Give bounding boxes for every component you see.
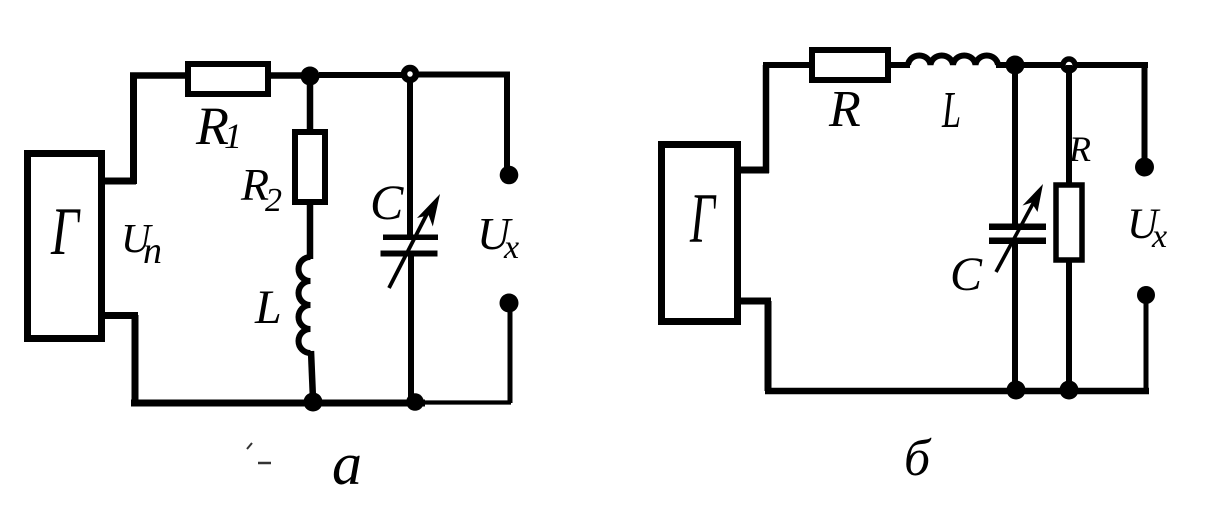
wire: R to L (b) [888, 62, 910, 68]
wire: left vertical top (b) [763, 65, 770, 173]
wire: generator top stub (b) [738, 167, 769, 174]
wire: left vertical bottom (b) [765, 301, 772, 391]
wire: L to node (b) [996, 62, 1007, 68]
wire: node to R2 [307, 76, 314, 133]
node: junction at capacitor branch (b) [1006, 56, 1025, 75]
wire: capacitor branch lower [408, 256, 414, 399]
terminal: upper output dot (b) [1135, 158, 1154, 177]
wire: bottom main (circuit a) [131, 400, 425, 407]
svg-text:R: R [1068, 129, 1091, 169]
wire: top segment node to capacitor [319, 72, 402, 78]
node: ring junction at R branch (b) [1063, 59, 1075, 71]
resistor R (series, b) [812, 50, 888, 80]
resistor R (shunt, b) [1056, 185, 1082, 260]
svg-text:x: x [503, 229, 519, 266]
node: ring junction at capacitor top [404, 68, 416, 80]
wire: R branch lower (b) [1066, 260, 1072, 392]
svg-text:R: R [828, 81, 861, 138]
resistor R2 [295, 132, 325, 202]
wire: lower terminal to bottom wire [508, 303, 513, 403]
svg-text:а: а [332, 431, 362, 497]
dirt speck 2 [258, 462, 271, 465]
wire: bottom main (b) [765, 388, 1149, 395]
wire: right vertical to upper terminal [504, 72, 510, 170]
wire: top left segment [130, 72, 189, 79]
wire: capacitor branch upper (b) [1012, 65, 1018, 226]
node: bottom junction of L branch [304, 393, 323, 412]
inductor L (circuit a) [299, 257, 311, 353]
variable arrow of C (circuit b) [996, 198, 1036, 272]
terminal: upper output dot [500, 166, 519, 185]
svg-text:L: L [941, 82, 961, 139]
svg-text:Г: Г [689, 180, 716, 258]
generator G1 box [28, 154, 102, 339]
wire: node to ring node (b) [1024, 62, 1061, 68]
node: junction after R1 [301, 67, 320, 86]
wire: left vertical top [130, 75, 137, 184]
wire: R branch upper (b) [1066, 65, 1072, 185]
wire: R2 to L [307, 202, 314, 259]
svg-text:2: 2 [265, 182, 282, 219]
wire: left vertical bottom [132, 315, 139, 404]
svg-text:C: C [950, 248, 983, 301]
svg-text:x: x [1151, 218, 1167, 255]
wire: right vertical to upper terminal (b) [1142, 62, 1148, 162]
generator G2 box [662, 145, 738, 322]
wire: L to bottom node [311, 351, 313, 399]
wire: generator top stub [101, 178, 136, 185]
dirt speck 1 [247, 443, 252, 449]
capacitor C plates (circuit b) [989, 224, 1046, 231]
node: bottom junction of R branch (b) [1060, 381, 1079, 400]
wire: top left segment (b) [763, 62, 813, 68]
wire: top segment capacitor to right corner [418, 72, 510, 78]
terminal: lower output dot [500, 294, 519, 313]
node: bottom junction of capacitor branch [406, 393, 424, 411]
svg-text:L: L [254, 281, 282, 334]
resistor R1 [188, 64, 268, 94]
svg-text:Г: Г [50, 193, 80, 269]
variable arrow of C (circuit a) [389, 208, 430, 288]
wire: lower terminal to bottom (b) [1144, 295, 1149, 392]
svg-text:п: п [143, 230, 162, 272]
svg-text:C: C [370, 174, 404, 230]
wire: generator bottom stub [101, 312, 138, 319]
wire: ring node to right corner (b) [1077, 62, 1148, 68]
wire: R1 to node [268, 72, 305, 79]
terminal: lower output dot (b) [1137, 286, 1155, 304]
capacitor C plates (circuit a) [383, 235, 438, 241]
inductor L (circuit b) [908, 55, 998, 65]
node: bottom junction of capacitor branch (b) [1007, 381, 1026, 400]
svg-text:1: 1 [224, 116, 242, 156]
wire: bottom right faded segment [425, 400, 511, 404]
wire: generator bottom stub (b) [738, 298, 771, 305]
svg-text:б: б [904, 430, 932, 487]
wire: capacitor branch upper [407, 81, 413, 237]
wire: capacitor branch lower (b) [1012, 244, 1018, 392]
